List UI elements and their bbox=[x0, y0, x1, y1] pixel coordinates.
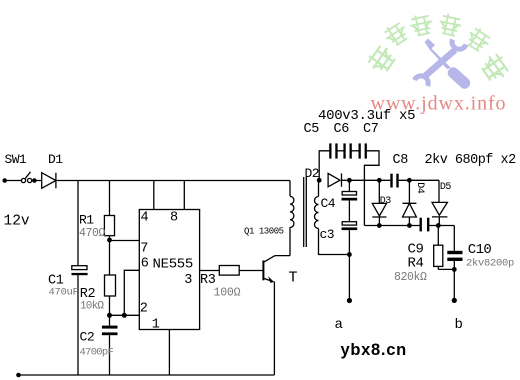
svg-text:ybx8.cn: ybx8.cn bbox=[341, 341, 407, 359]
node D4 bottom bbox=[407, 223, 412, 228]
node D5 bottom bbox=[436, 223, 441, 228]
node D4 top junction bbox=[407, 178, 412, 183]
svg-text:C10: C10 bbox=[468, 242, 492, 258]
watermark char lun bbox=[463, 25, 493, 55]
diode D4 bbox=[403, 180, 417, 225]
svg-text:7: 7 bbox=[140, 242, 148, 257]
svg-text:10kΩ: 10kΩ bbox=[80, 300, 104, 312]
resistor R3 bbox=[219, 266, 239, 276]
node supply - terminal bbox=[16, 373, 21, 378]
node supply + terminal bbox=[2, 178, 7, 183]
watermark icon wrench bbox=[415, 40, 467, 87]
node R1-R2 junction bbox=[107, 238, 112, 243]
watermark char wei bbox=[408, 12, 434, 37]
wire C5 chain left lead bbox=[319, 151, 330, 181]
wire pin8 bbox=[183, 181, 185, 210]
wire C7 chain right lead bbox=[364, 151, 379, 226]
capacitor C10 bbox=[453, 226, 455, 251]
wire pin4 bbox=[153, 181, 155, 210]
svg-text:2kv8200p: 2kv8200p bbox=[466, 258, 514, 270]
capacitor C7 bbox=[359, 143, 361, 158]
resistor R4 bbox=[437, 226, 439, 246]
watermark icon screwdriver bbox=[425, 39, 473, 91]
capacitor C2 bbox=[109, 315, 111, 325]
svg-text:12v: 12v bbox=[4, 214, 30, 230]
watermark char jia bbox=[364, 42, 398, 77]
svg-text:D4: D4 bbox=[414, 182, 425, 194]
svg-text:D3: D3 bbox=[380, 196, 392, 207]
wire C6-C7 bbox=[351, 150, 360, 152]
transformer T secondary winding bbox=[315, 180, 350, 254]
node b terminal bbox=[452, 298, 457, 303]
op-amp U1 NE555 box bbox=[139, 210, 199, 330]
node D3 top junction bbox=[377, 178, 382, 183]
capacitor C9 bbox=[420, 218, 422, 232]
svg-text:2: 2 bbox=[140, 302, 148, 317]
wire ground rail bottom bbox=[19, 374, 275, 376]
node c3 / secondary bottom junction bbox=[347, 252, 352, 257]
node R4-C10 bottom junction bbox=[452, 267, 457, 272]
node D2 cathode junction bbox=[347, 178, 352, 183]
svg-text:D5: D5 bbox=[440, 182, 452, 193]
svg-text:NE555: NE555 bbox=[153, 257, 194, 273]
diode D2 bbox=[328, 173, 341, 186]
capacitor C4 bbox=[348, 180, 350, 191]
wire pin3 to R3 bbox=[200, 270, 220, 272]
svg-text:a: a bbox=[335, 317, 343, 333]
capacitor C1 bbox=[72, 266, 87, 270]
svg-text:2kv 680pf x2: 2kv 680pf x2 bbox=[425, 153, 517, 168]
svg-text:R1: R1 bbox=[79, 213, 94, 228]
svg-text:1: 1 bbox=[152, 318, 160, 333]
node secondary top / D2 anode bbox=[317, 178, 322, 183]
node R2-C2-pin2 junction bbox=[107, 313, 112, 318]
wire C1 column bbox=[77, 181, 79, 376]
svg-text:D1: D1 bbox=[48, 152, 63, 167]
wire node a lead bbox=[348, 255, 350, 301]
svg-text:c3: c3 bbox=[320, 227, 334, 242]
svg-text:C5: C5 bbox=[304, 122, 320, 137]
wire R3 to base bbox=[239, 270, 263, 272]
svg-text:470Ω: 470Ω bbox=[79, 227, 106, 240]
capacitor c3 bbox=[342, 222, 356, 225]
svg-text:C4: C4 bbox=[321, 196, 336, 211]
switch SW1 bbox=[21, 178, 25, 182]
svg-text:www.jdwx.info: www.jdwx.info bbox=[371, 93, 507, 115]
diode D5 bbox=[432, 202, 447, 225]
svg-text:4700pF: 4700pF bbox=[80, 346, 114, 358]
watermark char dian bbox=[381, 19, 411, 49]
node after switch bbox=[32, 178, 37, 183]
wire pin1 bbox=[168, 330, 170, 376]
wire R1 column bbox=[109, 181, 111, 216]
wire pin7 bbox=[110, 240, 140, 242]
resistor R1 bbox=[104, 216, 114, 236]
watermark char xiu bbox=[437, 12, 463, 37]
svg-text:Q1 13005: Q1 13005 bbox=[244, 227, 284, 237]
wire node b lead bbox=[453, 269, 455, 300]
diode D1 bbox=[42, 173, 56, 189]
capacitor C8 bbox=[390, 174, 392, 188]
svg-text:100Ω: 100Ω bbox=[214, 286, 241, 299]
svg-text:C8: C8 bbox=[393, 153, 409, 168]
svg-text:470uF: 470uF bbox=[49, 287, 79, 299]
svg-text:6: 6 bbox=[141, 257, 149, 272]
diode D3 bbox=[372, 180, 386, 225]
transformer T primary winding bbox=[290, 181, 294, 228]
node D3 bottom bbox=[377, 223, 382, 228]
wire pin2 bbox=[110, 314, 140, 316]
wire R1 to R2 bbox=[109, 240, 111, 275]
svg-text:3: 3 bbox=[184, 273, 192, 288]
svg-text:SW1: SW1 bbox=[5, 152, 27, 167]
wire multiplier bottom rail bbox=[364, 225, 454, 227]
transformer T core bbox=[304, 177, 307, 247]
svg-text:D2: D2 bbox=[305, 166, 319, 181]
watermark char tan bbox=[478, 50, 512, 85]
svg-text:4: 4 bbox=[141, 211, 149, 226]
wire collector to primary bbox=[275, 227, 290, 256]
capacitor C5 bbox=[329, 143, 331, 158]
svg-text:R4: R4 bbox=[408, 255, 424, 271]
node a terminal bbox=[347, 298, 352, 303]
wire emitter to ground bbox=[273, 282, 275, 376]
transistor Q1 bbox=[262, 261, 264, 281]
resistor R2 bbox=[105, 275, 116, 296]
capacitor C6 bbox=[343, 143, 345, 158]
svg-text:C2: C2 bbox=[80, 330, 95, 345]
svg-text:820kΩ: 820kΩ bbox=[394, 271, 427, 284]
wire multiplier top rail bbox=[349, 180, 439, 202]
svg-text:T: T bbox=[289, 270, 298, 287]
svg-text:C6: C6 bbox=[334, 122, 350, 137]
wire pin6 branch bbox=[124, 270, 139, 315]
wire C5-C6 bbox=[336, 150, 344, 152]
svg-text:8: 8 bbox=[170, 211, 178, 226]
wire top rail 12v bbox=[5, 180, 290, 182]
svg-text:C7: C7 bbox=[363, 122, 379, 137]
svg-text:b: b bbox=[455, 317, 463, 333]
node pin6 branch junction bbox=[122, 313, 127, 318]
